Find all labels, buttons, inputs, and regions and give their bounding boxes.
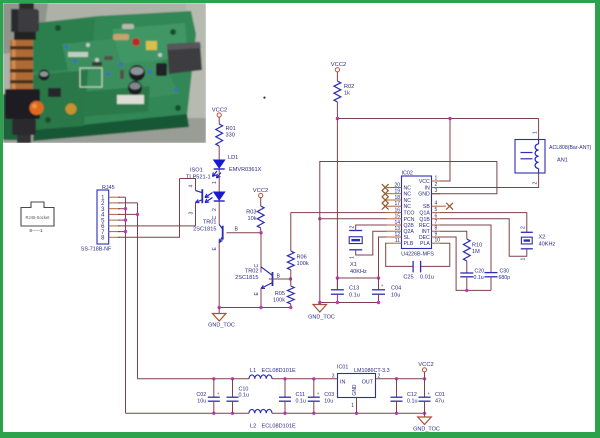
wire ISO1 LED cathode to TR01 collector, pin 2 bbox=[212, 202, 219, 225]
capacitor C25 0.01u bbox=[403, 261, 434, 281]
svg-text:ECL08D101E: ECL08D101E bbox=[262, 368, 296, 374]
svg-text:SB: SB bbox=[423, 204, 430, 210]
svg-text:R01: R01 bbox=[226, 126, 236, 132]
svg-text:OUT: OUT bbox=[362, 380, 374, 386]
svg-text:PLA: PLA bbox=[420, 241, 430, 247]
ground GND_TOC (middle) bbox=[308, 303, 335, 321]
no-connect X mark on pin 4 SB bbox=[440, 203, 453, 210]
ground GND_TOC (supply) bbox=[413, 413, 440, 432]
svg-text:1: 1 bbox=[435, 176, 438, 182]
svg-text:IC02: IC02 bbox=[402, 171, 413, 177]
op-amp IC02 U4226B-MFS bbox=[401, 171, 434, 258]
svg-text:17: 17 bbox=[394, 201, 400, 207]
resistor R05 100k bbox=[273, 279, 294, 308]
svg-text:GND_TOC: GND_TOC bbox=[413, 427, 440, 433]
svg-text:6: 6 bbox=[435, 213, 438, 219]
svg-text:20: 20 bbox=[394, 182, 400, 188]
wire AN1 pin1 bbox=[532, 119, 538, 140]
power symbol VCC2 (R03 branch) bbox=[253, 188, 268, 198]
svg-text:TLP521-1: TLP521-1 bbox=[186, 175, 211, 181]
svg-text:40KHz: 40KHz bbox=[539, 242, 556, 248]
svg-text:C13: C13 bbox=[349, 286, 359, 292]
wire VCC2 to R03 bbox=[260, 198, 262, 207]
wire TCO pin16 to R06 bbox=[291, 213, 387, 251]
svg-text:TR01: TR01 bbox=[203, 220, 217, 226]
wire AN1 pin2 to IC02 pin2 IN bbox=[432, 173, 539, 188]
wire C13/C04 top node bbox=[336, 276, 381, 279]
svg-text:C30: C30 bbox=[500, 269, 510, 275]
capacitor C13 0.1u bbox=[331, 278, 360, 303]
wire SL pin12 to C13/C04 node bbox=[379, 237, 387, 278]
capacitor C20 0.1u bbox=[460, 261, 484, 290]
wire PLA pin10 loop bbox=[421, 243, 450, 266]
wire VCC node horizontal to AN1 bbox=[336, 117, 539, 120]
svg-text:GND: GND bbox=[352, 384, 358, 396]
svg-text:40KHz: 40KHz bbox=[350, 269, 367, 275]
wire DEC pin9 to C20/C30 bottom bbox=[440, 237, 491, 292]
capacitor C02 10u bbox=[196, 379, 219, 414]
wire local ground rail TR01/TR02/R05 bbox=[218, 306, 293, 309]
svg-text:+: + bbox=[217, 391, 220, 396]
svg-text:GND_TOC: GND_TOC bbox=[308, 315, 335, 321]
svg-text:R03: R03 bbox=[246, 210, 256, 216]
svg-text:1: 1 bbox=[520, 258, 526, 261]
wire Q1A pin5 to X2 pin2 bbox=[440, 213, 527, 233]
svg-text:PCN: PCN bbox=[404, 217, 415, 223]
connector RJ45 SS-718B-NF bbox=[81, 185, 115, 253]
svg-text:+: + bbox=[428, 391, 431, 396]
svg-text:U4226B-MFS: U4226B-MFS bbox=[401, 252, 434, 258]
svg-text:3: 3 bbox=[189, 212, 195, 215]
svg-text:C01: C01 bbox=[435, 392, 445, 398]
svg-text:L2: L2 bbox=[250, 424, 256, 430]
svg-text:12: 12 bbox=[394, 232, 400, 238]
wire VCC2 to R02 bbox=[336, 72, 338, 81]
svg-text:4: 4 bbox=[435, 201, 438, 207]
svg-text:ISO1: ISO1 bbox=[190, 168, 203, 174]
svg-text:GND_TOC: GND_TOC bbox=[208, 323, 235, 329]
svg-text:1M: 1M bbox=[472, 249, 480, 255]
wire IC01 GND to rail bbox=[356, 398, 358, 414]
svg-text:Q1B: Q1B bbox=[419, 217, 430, 223]
svg-text:0.1u: 0.1u bbox=[239, 392, 250, 398]
svg-text:2: 2 bbox=[378, 374, 381, 380]
capacitor C01 47u bbox=[419, 379, 445, 414]
svg-text:19: 19 bbox=[394, 189, 400, 195]
transistor TR01 2SC1815 bbox=[193, 220, 238, 251]
svg-text:1: 1 bbox=[351, 403, 354, 409]
svg-text:+: + bbox=[317, 391, 320, 396]
svg-text:R06: R06 bbox=[297, 255, 307, 261]
wire ISO1 pin3 emitter down bbox=[195, 203, 197, 226]
svg-text:SL: SL bbox=[404, 235, 410, 241]
wire VCC2 to R01 bbox=[218, 117, 220, 124]
svg-text:IC01: IC01 bbox=[337, 365, 348, 371]
svg-text:2: 2 bbox=[349, 226, 355, 229]
opto light arrows bbox=[205, 193, 213, 203]
svg-text:NC: NC bbox=[404, 186, 412, 192]
wire R01 to LD1 bbox=[218, 146, 220, 160]
wire REC pin7 to C30 bbox=[440, 225, 491, 273]
svg-text:10u: 10u bbox=[391, 293, 400, 299]
inductor L2 ECL08D101E bbox=[249, 409, 296, 429]
svg-text:IN: IN bbox=[340, 380, 345, 386]
svg-text:9: 9 bbox=[435, 232, 438, 238]
wire RJ45 pin6 to ISO1 pin3 bbox=[118, 225, 196, 227]
power symbol VCC2 (R02 branch) bbox=[331, 62, 346, 72]
svg-text:680p: 680p bbox=[499, 275, 511, 281]
wire X1 pin2 to Q2B pin14 bbox=[356, 225, 387, 231]
svg-text:ECL08D101E: ECL08D101E bbox=[262, 424, 296, 430]
wire X1 pin1 to Q2A pin13 bbox=[356, 231, 387, 255]
svg-text:10k: 10k bbox=[247, 216, 256, 222]
svg-text:2: 2 bbox=[520, 226, 526, 229]
svg-text:SS-718B-NF: SS-718B-NF bbox=[81, 247, 112, 253]
capacitor C11 0.1u bbox=[279, 379, 306, 414]
svg-text:0.1u: 0.1u bbox=[407, 398, 418, 404]
svg-text:15: 15 bbox=[394, 214, 400, 220]
svg-text:C25: C25 bbox=[403, 275, 413, 281]
svg-text:NC: NC bbox=[404, 198, 412, 204]
svg-text:AN1: AN1 bbox=[557, 158, 568, 164]
svg-text:10u: 10u bbox=[324, 398, 333, 404]
wire PLB pin11 loop bbox=[386, 243, 413, 266]
svg-text:RJ45-Socket: RJ45-Socket bbox=[26, 215, 51, 220]
svg-text:EMVR0361X: EMVR0361X bbox=[229, 167, 262, 173]
svg-text:DEC: DEC bbox=[419, 235, 430, 241]
svg-text:1: 1 bbox=[212, 181, 218, 184]
wire GND vertical / pin3 net bbox=[320, 162, 497, 303]
svg-text:5: 5 bbox=[435, 207, 438, 213]
svg-text:1: 1 bbox=[349, 256, 355, 259]
wire ISO1 pin4 collector riser bbox=[180, 179, 196, 191]
svg-text:2SC1815: 2SC1815 bbox=[235, 275, 258, 281]
svg-text:TCO: TCO bbox=[404, 211, 415, 217]
wire INT pin8 to R10 bbox=[440, 231, 467, 239]
svg-text:11: 11 bbox=[395, 238, 400, 244]
svg-text:C02: C02 bbox=[196, 392, 206, 398]
no-connect X marks on pins 20,19,18,17 bbox=[382, 184, 389, 210]
crystal X1 40KHz bbox=[349, 226, 367, 276]
wire PCN pin15 tap bbox=[318, 217, 386, 220]
svg-text:X2: X2 bbox=[539, 235, 546, 241]
svg-text:PLB: PLB bbox=[404, 241, 414, 247]
RJ45 pin stubs bbox=[109, 197, 120, 237]
resistor R01 330 bbox=[216, 124, 236, 146]
svg-text:10u: 10u bbox=[197, 398, 206, 404]
svg-text:2: 2 bbox=[435, 182, 438, 188]
svg-text:VCC2: VCC2 bbox=[418, 362, 433, 368]
svg-text:R02: R02 bbox=[344, 84, 354, 90]
resistor R10 1M bbox=[463, 239, 482, 261]
svg-text:8-----1: 8-----1 bbox=[29, 228, 43, 234]
crystal X2 40KHz bbox=[520, 232, 555, 260]
svg-text:7: 7 bbox=[435, 220, 438, 226]
IC02 right pin stubs and numbers 1-10 bbox=[432, 176, 441, 244]
svg-text:14: 14 bbox=[394, 220, 400, 226]
svg-text:IN: IN bbox=[425, 186, 430, 192]
capacitor C10 0.1u bbox=[227, 379, 250, 414]
wire middle ground rail bbox=[318, 301, 380, 304]
wire bottom supply rail bbox=[126, 412, 427, 415]
svg-text:C04: C04 bbox=[391, 286, 401, 292]
svg-text:1k: 1k bbox=[344, 91, 350, 97]
wire RJ45 pins 2,4 bus bbox=[118, 203, 139, 379]
wire R03 to node bbox=[260, 228, 262, 233]
capacitor C04 10u bbox=[372, 278, 401, 303]
svg-text:16: 16 bbox=[394, 207, 400, 213]
svg-text:Q2B: Q2B bbox=[404, 223, 415, 229]
wire IC02 pin1 VCC riser bbox=[432, 119, 451, 182]
wire TR02 base to R05/R06 node bbox=[269, 277, 292, 280]
wire TR01 emitter to ground rail bbox=[218, 243, 220, 308]
IC02 left pin stubs and numbers 20-11 bbox=[387, 182, 402, 244]
resistor R02 1k bbox=[334, 81, 354, 102]
wire VCC node down to C13/C04 bbox=[336, 119, 338, 290]
svg-text:2: 2 bbox=[212, 208, 218, 211]
svg-text:C20: C20 bbox=[475, 269, 485, 275]
svg-text:1: 1 bbox=[532, 131, 538, 134]
svg-text:VCC2: VCC2 bbox=[331, 62, 346, 68]
svg-text:47u: 47u bbox=[435, 398, 444, 404]
svg-text:10: 10 bbox=[435, 238, 441, 244]
svg-text:VCC: VCC bbox=[419, 179, 430, 185]
svg-text:GND: GND bbox=[418, 192, 430, 198]
svg-text:2: 2 bbox=[532, 182, 538, 185]
resistor R06 100k bbox=[287, 251, 308, 279]
svg-text:NC: NC bbox=[404, 204, 412, 210]
PCB photo bbox=[3, 3, 206, 143]
wire RJ45 pin8 to ISO1 pin4 bbox=[118, 179, 180, 238]
capacitor C30 680p bbox=[485, 269, 511, 291]
svg-text:TR02: TR02 bbox=[245, 269, 259, 275]
wire TR01 base to R03/TR02 node bbox=[227, 232, 262, 234]
svg-text:330: 330 bbox=[226, 133, 235, 139]
svg-text:L1: L1 bbox=[250, 368, 256, 374]
svg-text:2SC1815: 2SC1815 bbox=[193, 227, 216, 233]
wire X2 pin1 to Q1B pin6 bbox=[440, 219, 527, 256]
svg-text:R10: R10 bbox=[472, 243, 482, 249]
opto-coupler ISO1 TLP521-1 LED side bbox=[186, 168, 225, 202]
power symbol VCC2 (R01 branch) bbox=[212, 108, 227, 118]
node TR01 base junction bbox=[259, 231, 262, 234]
svg-text:0.1u: 0.1u bbox=[474, 275, 484, 281]
wire top supply rail bbox=[138, 377, 427, 380]
svg-text:LM1086CT-3.3: LM1086CT-3.3 bbox=[354, 368, 390, 374]
svg-text:18: 18 bbox=[394, 195, 400, 201]
capacitor C03 10u bbox=[308, 379, 334, 414]
svg-text:4: 4 bbox=[189, 185, 195, 188]
wire TR02 collector bbox=[254, 233, 261, 273]
svg-text:REC: REC bbox=[419, 223, 430, 229]
resistor R03 10k bbox=[246, 206, 264, 228]
inductor L1 ECL08D101E bbox=[249, 368, 296, 379]
connector symbol RJ45-Socket bbox=[21, 202, 54, 234]
antenna AN1 ACL808(Bar-ANT) bbox=[515, 140, 592, 174]
svg-text:LD1: LD1 bbox=[228, 155, 238, 161]
regulator IC01 LM1086CT-3.3 bbox=[332, 365, 390, 410]
power symbol VCC2 (output) bbox=[418, 362, 433, 379]
svg-text:Q1A: Q1A bbox=[419, 211, 430, 217]
svg-text:R05: R05 bbox=[275, 291, 285, 297]
svg-text:C03: C03 bbox=[324, 392, 334, 398]
svg-text:NC: NC bbox=[404, 192, 412, 198]
svg-text:0.01u: 0.01u bbox=[420, 275, 434, 281]
wire R02 to VCC node bbox=[336, 102, 338, 119]
wire TR02 emitter down bbox=[260, 289, 262, 308]
diode LD1 EMVR0361X bbox=[213, 155, 262, 178]
svg-text:3: 3 bbox=[332, 374, 335, 380]
svg-text:RJ45: RJ45 bbox=[102, 185, 115, 191]
opto-coupler ISO1 phototransistor side bbox=[189, 185, 203, 215]
wire LD1 cathode to ISO1 LED, pin 1 bbox=[212, 170, 219, 193]
svg-text:0.1u: 0.1u bbox=[349, 293, 360, 299]
svg-text:X1: X1 bbox=[350, 262, 357, 268]
svg-text:ACL808(Bar-ANT): ACL808(Bar-ANT) bbox=[549, 145, 592, 151]
svg-text:C: C bbox=[254, 264, 260, 268]
capacitor C12 0.1u bbox=[391, 379, 418, 414]
svg-text:0.1u: 0.1u bbox=[296, 398, 307, 404]
svg-text:+: + bbox=[381, 283, 384, 288]
svg-text:100k: 100k bbox=[273, 298, 285, 304]
svg-text:100k: 100k bbox=[297, 261, 309, 267]
wire RJ45 pins 1,3,5,7 bus bbox=[118, 197, 127, 413]
transistor TR02 2SC1815 bbox=[235, 267, 280, 296]
svg-text:C11: C11 bbox=[296, 392, 306, 398]
svg-text:C12: C12 bbox=[407, 392, 417, 398]
ground GND_TOC (TR01) bbox=[208, 308, 235, 329]
svg-text:B: B bbox=[235, 227, 239, 233]
